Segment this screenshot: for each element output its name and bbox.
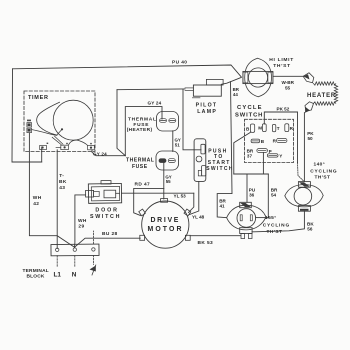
svg-text:W-BR: W-BR: [282, 80, 295, 85]
wire pilot lamp to hi-limit: [221, 78, 241, 85]
wire 155 right ear to BR54: [256, 217, 269, 219]
svg-text:56: 56: [307, 226, 313, 231]
svg-text:42: 42: [33, 201, 39, 207]
svg-text:WH: WH: [78, 218, 87, 224]
svg-text:TH’ST: TH’ST: [267, 229, 283, 235]
hi-limit left cap: [243, 72, 248, 83]
wire PU36 down to 155 thermostat: [246, 174, 248, 202]
svg-text:HEATER: HEATER: [307, 93, 336, 99]
svg-text:44: 44: [233, 92, 238, 97]
svg-text:TH’ST: TH’ST: [315, 174, 331, 180]
wire BK53 motor to 155 thermostat: [190, 235, 240, 237]
svg-text:N: N: [72, 272, 77, 279]
cycle switch contact bar Y: [267, 154, 282, 159]
wire GY24 junction up to thermal fuse heater: [125, 107, 162, 156]
svg-text:THERMAL: THERMAL: [128, 117, 157, 123]
svg-text:54: 54: [271, 193, 277, 198]
svg-text:140°: 140°: [314, 162, 326, 168]
svg-text:TH’ST: TH’ST: [273, 63, 291, 69]
door switch right contact block: [104, 190, 120, 198]
thermal fuse left pin: [159, 159, 166, 163]
svg-text:FUSE: FUSE: [132, 164, 148, 170]
svg-text:(HEATER): (HEATER): [127, 127, 153, 133]
svg-text:BU 28: BU 28: [102, 231, 118, 237]
155 thermostat inner pins: [240, 215, 252, 221]
timer cam lobe: [37, 102, 60, 135]
timer cam hump between terminals: [69, 140, 88, 145]
svg-text:B: B: [261, 139, 265, 144]
drive motor circle: [142, 201, 189, 248]
timer box: [24, 91, 95, 152]
cycle switch terminal T top: [272, 124, 279, 131]
155 thermostat bottom legs: [241, 234, 252, 239]
155 thermostat top fill: [240, 203, 251, 207]
wire left border L1 riser: [12, 69, 42, 162]
140 thermostat bottom fill: [300, 209, 309, 211]
cycle switch contact bar R: [273, 138, 287, 143]
140 thermostat circle: [294, 187, 312, 205]
svg-text:B: B: [246, 127, 250, 132]
wire W-BR55 hi-limit to heater cone: [273, 75, 303, 77]
svg-text:50: 50: [308, 136, 314, 141]
wire BR44 drop from pilot junction: [217, 82, 232, 218]
start switch top terminal: [201, 144, 205, 154]
svg-text:THERMAL: THERMAL: [126, 158, 154, 164]
wire WH29 door switch to terminal block: [75, 195, 86, 247]
timer contact arm from left terminal: [32, 130, 62, 136]
svg-text:PK 52: PK 52: [277, 107, 290, 112]
wire YL53 corner down to motor upper-right terminal: [189, 193, 194, 212]
hi-limit thermostat wings: [245, 58, 272, 97]
cycle switch terminal BR top: [285, 124, 294, 132]
timer contact spring to terminal 2: [52, 136, 63, 144]
wire T-BK43 timer terminal 2 down to terminal block left hole: [56, 150, 58, 249]
svg-text:YL 48: YL 48: [192, 214, 205, 219]
wire PU40 top border from timer area to hi-limit: [13, 65, 242, 77]
140 thermostat wings: [285, 185, 323, 207]
svg-text:TERMINAL: TERMINAL: [23, 268, 49, 274]
wire GY51 between fuses: [172, 131, 174, 152]
svg-text:29: 29: [78, 223, 84, 229]
hi-limit right cap: [268, 72, 273, 83]
svg-text:41: 41: [220, 203, 226, 208]
svg-text:YL 53: YL 53: [174, 194, 187, 199]
svg-text:T-: T-: [59, 173, 64, 179]
wire PK52 dotted to 140 thermostat: [298, 163, 305, 182]
door switch outer body: [88, 183, 121, 203]
wire BK56 from 140 bottom to 155 terminal: [252, 211, 304, 232]
140 thermostat top terminal fill: [299, 182, 310, 186]
svg-text:CYCLING: CYCLING: [310, 168, 337, 174]
ground symbol: [90, 265, 96, 275]
cycle switch box: [245, 119, 294, 162]
thermal fuse (heater) right pin: [169, 119, 176, 123]
thermal fuse (heater) left pin: [160, 119, 167, 123]
155 thermostat circle: [237, 209, 256, 228]
svg-text:36: 36: [249, 193, 255, 198]
svg-text:BK: BK: [59, 179, 67, 185]
terminal block hole L1: [56, 248, 59, 251]
wire PK50 heater to 140 thermostat: [303, 113, 305, 182]
wire GY24 junction up-branch to pilot wire: [117, 90, 125, 156]
pilot lamp body: [193, 85, 221, 96]
svg-text:Y: Y: [279, 154, 282, 159]
start switch plunger circle: [196, 156, 202, 162]
cycle switch terminal M top: [258, 124, 266, 132]
dashed lead ground: [92, 255, 94, 264]
svg-text:BLOCK: BLOCK: [27, 274, 45, 280]
cycle switch terminal B top: [246, 124, 255, 132]
thermal fuse body: [156, 151, 179, 170]
timer bottom terminal 1: [40, 143, 48, 150]
svg-text:51: 51: [175, 142, 180, 147]
start switch bottom terminal: [198, 166, 206, 176]
timer bottom terminal 2: [56, 143, 68, 150]
cycle switch contact bar P: [257, 149, 272, 154]
pilot lamp bottom tab: [192, 97, 200, 99]
wire PK52 from M terminal around box: [264, 112, 297, 163]
cycle switch contact bar B: [251, 139, 265, 144]
wire to motor upper-left terminal: [134, 193, 141, 215]
wire RD47 branch: [134, 188, 164, 193]
motor right terminal: [185, 235, 190, 240]
wire P terminal drop: [262, 152, 264, 174]
motor top terminal: [161, 199, 168, 203]
svg-text:RD 47: RD 47: [135, 181, 151, 187]
svg-text:DOOR: DOOR: [95, 207, 119, 213]
155 thermostat wings: [227, 205, 266, 230]
svg-text:CYCLING: CYCLING: [263, 222, 290, 228]
svg-text:SWITCH: SWITCH: [90, 214, 121, 220]
start switch body: [194, 139, 206, 182]
wire WH42 timer left terminal down to terminal block: [29, 133, 74, 247]
svg-text:CYCLE: CYCLE: [237, 105, 263, 111]
motor left terminal: [140, 235, 145, 240]
door switch inner frame: [91, 186, 119, 200]
svg-text:P: P: [269, 149, 272, 154]
svg-text:55: 55: [166, 179, 171, 184]
hi-limit thermostat bar: [243, 71, 273, 83]
timer cam circle: [53, 100, 93, 140]
svg-text:55: 55: [285, 85, 291, 90]
wire GY55 fuse down to motor top: [163, 163, 165, 200]
heater bottom cone connector: [305, 102, 314, 113]
svg-text:43: 43: [59, 185, 65, 191]
svg-text:TIMER: TIMER: [28, 95, 49, 101]
svg-text:DRIVE: DRIVE: [151, 217, 181, 224]
svg-text:L1: L1: [54, 272, 62, 279]
heater top cone connector: [303, 73, 314, 83]
wire YL48 start switch drop to motor upper-right terminal: [190, 181, 199, 214]
terminal block body: [51, 244, 99, 256]
wire timer terminal B1 drop to L1 wire: [41, 147, 43, 162]
wire drop to start switch: [183, 90, 201, 150]
svg-text:PILOT: PILOT: [196, 103, 218, 109]
svg-text:START: START: [208, 160, 231, 166]
svg-text:R: R: [273, 138, 277, 143]
140 thermostat bottom terminal: [298, 206, 310, 212]
svg-text:37: 37: [247, 153, 253, 158]
155 thermostat top terminal: [240, 202, 252, 207]
svg-text:155°: 155°: [265, 215, 277, 221]
thermal fuse (heater) body: [157, 112, 179, 132]
pilot lamp left lead: [185, 88, 193, 91]
svg-text:WH: WH: [33, 195, 42, 201]
svg-text:MOTOR: MOTOR: [148, 226, 184, 233]
svg-text:SWITCH: SWITCH: [235, 112, 263, 118]
timer bottom terminal 3 GY24: [88, 143, 95, 150]
motor upper-right terminal: [184, 209, 191, 216]
terminal block hole N: [73, 248, 76, 251]
svg-text:R: R: [290, 126, 294, 131]
svg-text:LAMP: LAMP: [197, 109, 217, 115]
dashed lead N: [74, 256, 76, 267]
svg-text:BK 53: BK 53: [198, 240, 214, 246]
svg-text:PU 40: PU 40: [172, 60, 187, 66]
svg-text:T: T: [277, 126, 280, 131]
svg-text:GY 24: GY 24: [148, 101, 162, 106]
dashed lead L1: [56, 256, 58, 267]
wire bus below cycle switch: [234, 173, 268, 175]
thermal fuse right pin: [168, 159, 175, 163]
timer left terminal BK: [27, 120, 32, 133]
wire BR54 down to 155 right ear: [267, 174, 269, 218]
wire B terminal diagonal out of box: [234, 132, 251, 174]
door switch left contact block: [86, 190, 100, 197]
svg-text:HI LIMIT: HI LIMIT: [269, 57, 294, 63]
terminal block hole ground: [92, 248, 95, 251]
wire GY24 from timer terminal 3 to junction: [92, 150, 125, 156]
pilot lamp top cap: [206, 79, 223, 85]
155 thermostat bottom terminal: [240, 228, 252, 234]
wire pilot feed from GY24 node: [117, 88, 185, 91]
motor upper-left terminal: [139, 209, 146, 216]
heater element zigzag: [314, 82, 338, 105]
door switch top tab: [101, 181, 111, 184]
140 thermostat top terminal: [298, 182, 310, 188]
wire BU28 terminal block to motor left: [75, 238, 141, 247]
timer contact pivot dot: [61, 128, 63, 130]
wire door switch to motor horizontal: [122, 192, 194, 194]
svg-text:M: M: [258, 126, 262, 131]
svg-text:SWITCH: SWITCH: [206, 166, 234, 172]
hi-limit circle: [248, 68, 267, 87]
